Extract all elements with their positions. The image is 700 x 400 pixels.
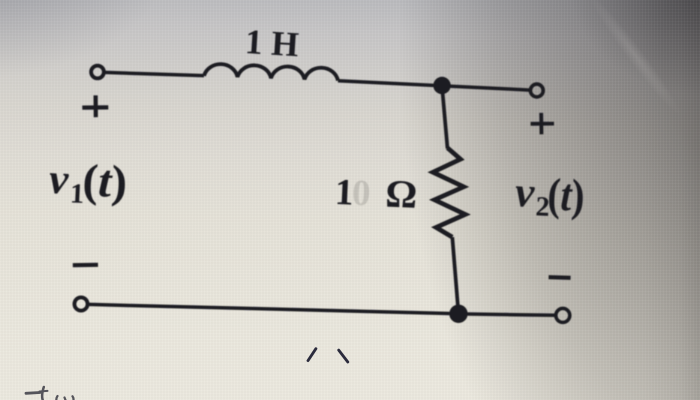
polarity plus right bbox=[531, 113, 554, 134]
tick mark backslash bbox=[339, 350, 348, 362]
svg-text:v: v bbox=[48, 156, 70, 204]
cropped text fragment bottom-left bbox=[26, 387, 74, 400]
node A top junction bbox=[433, 77, 450, 94]
svg-text:Ω: Ω bbox=[385, 172, 419, 217]
resistor R1 body bbox=[433, 148, 465, 237]
terminal T2 top-right bbox=[530, 84, 543, 97]
wire resistor bottom lead bbox=[452, 237, 458, 313]
polarity minus left bbox=[73, 263, 98, 268]
wire resistor top lead bbox=[442, 86, 448, 149]
polarity plus left bbox=[82, 95, 108, 117]
polarity minus right bbox=[549, 275, 571, 280]
svg-text:(t): (t) bbox=[82, 154, 129, 207]
tick mark slash bbox=[308, 349, 316, 361]
inductor L1 bbox=[204, 64, 338, 80]
svg-text:1 H: 1 H bbox=[244, 22, 300, 64]
wire top-left segment bbox=[104, 72, 204, 75]
label R1 value 10 ohm bbox=[334, 169, 418, 217]
svg-text:v: v bbox=[514, 169, 536, 217]
wire bottom-left segment bbox=[88, 304, 450, 313]
wire top-right segment to node and terminal bbox=[338, 81, 530, 90]
terminal T4 bottom-right bbox=[556, 308, 570, 322]
label v1(t) bbox=[48, 153, 128, 212]
terminal T1 top-left bbox=[91, 66, 104, 79]
label v2(t) bbox=[514, 167, 586, 224]
terminal T3 bottom-left bbox=[74, 297, 87, 310]
wire bottom-right segment bbox=[468, 314, 556, 315]
svg-text:(t): (t) bbox=[547, 168, 586, 221]
node B bottom junction bbox=[449, 305, 467, 323]
svg-text:0: 0 bbox=[351, 173, 371, 215]
